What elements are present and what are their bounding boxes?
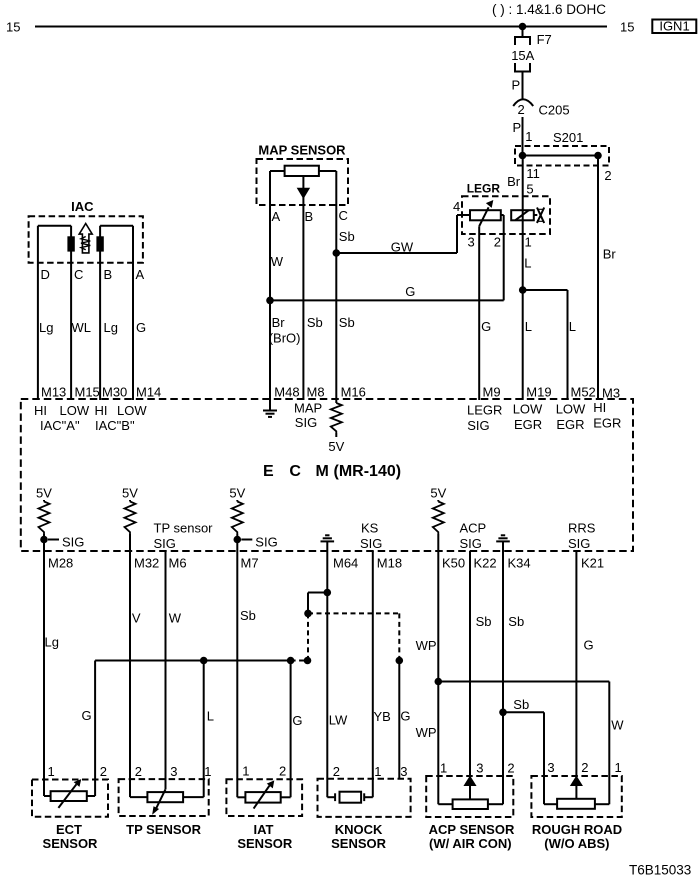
svg-text:SENSOR: SENSOR	[331, 836, 387, 851]
junction on ignition rail	[519, 23, 527, 31]
svg-text:G: G	[481, 319, 491, 334]
svg-text:Sb: Sb	[240, 608, 256, 623]
svg-text:2: 2	[279, 764, 286, 779]
svg-text:W: W	[169, 611, 182, 626]
svg-text:L: L	[569, 319, 576, 334]
ACP sensor	[426, 776, 513, 817]
svg-text:WP: WP	[416, 725, 437, 740]
svg-text:TP SENSOR: TP SENSOR	[126, 822, 202, 837]
ECT sensor	[32, 780, 108, 817]
svg-text:LOW: LOW	[117, 403, 147, 418]
svg-text:G: G	[400, 709, 410, 724]
svg-text:TP sensor: TP sensor	[154, 521, 214, 536]
svg-text:1: 1	[204, 764, 211, 779]
svg-text:B: B	[305, 209, 314, 224]
svg-text:L: L	[525, 319, 532, 334]
svg-text:SIG: SIG	[568, 536, 590, 551]
svg-text:M18: M18	[377, 556, 402, 571]
IAC coil B	[100, 225, 133, 227]
MAP pin A wire	[270, 170, 285, 172]
svg-text:(W/ AIR CON): (W/ AIR CON)	[429, 836, 512, 851]
svg-text:ROUGH ROAD: ROUGH ROAD	[532, 822, 622, 837]
svg-text:M6: M6	[169, 556, 187, 571]
rough road sensor	[531, 776, 621, 817]
svg-text:WL: WL	[72, 320, 92, 335]
MAP pin C wire	[319, 170, 336, 172]
svg-text:11: 11	[526, 166, 540, 181]
svg-text:LEGR: LEGR	[467, 403, 502, 418]
knock sensor	[318, 779, 411, 817]
wire color P below C205	[522, 117, 524, 156]
svg-text:2: 2	[333, 764, 340, 779]
svg-text:M48: M48	[274, 385, 299, 400]
svg-text:2: 2	[507, 761, 514, 776]
svg-text:3: 3	[468, 235, 475, 250]
svg-text:1: 1	[48, 764, 55, 779]
junction bus to TP pin 1	[200, 657, 208, 665]
svg-text:L: L	[524, 256, 531, 271]
connector C205 pin 2	[513, 99, 533, 106]
svg-text:1: 1	[525, 129, 532, 144]
svg-text:L: L	[207, 709, 214, 724]
wire shield to knock pin 3	[398, 661, 400, 779]
junction K34 to rough-road pin 3	[499, 709, 507, 717]
wire K22 to ACP pin 3	[469, 551, 471, 799]
svg-text:LEGR: LEGR	[467, 182, 501, 196]
wire K34 to ACP pin 2	[502, 551, 504, 804]
MAP pin B wire with arrow	[302, 176, 304, 400]
wire color G on K21	[575, 551, 577, 778]
svg-text:K34: K34	[508, 556, 531, 571]
svg-text:1: 1	[525, 235, 532, 250]
svg-text:G: G	[82, 708, 92, 723]
svg-text:Br: Br	[507, 174, 521, 189]
svg-text:3: 3	[476, 761, 483, 776]
wire M6 to TP pin 3	[165, 551, 167, 789]
svg-text:1: 1	[374, 764, 381, 779]
wire ignition feed rail	[35, 26, 607, 28]
junction bus to IAT pin 2	[287, 657, 295, 665]
EGR valve symbol	[534, 214, 538, 216]
svg-text:T6B15033: T6B15033	[629, 863, 691, 878]
svg-text:K21: K21	[581, 556, 604, 571]
svg-text:2: 2	[100, 764, 107, 779]
svg-text:2: 2	[604, 168, 611, 183]
svg-text:D: D	[41, 267, 50, 282]
wire bus to ECT pin 2	[94, 661, 96, 797]
svg-text:B: B	[104, 267, 113, 282]
svg-text:SENSOR: SENSOR	[237, 836, 293, 851]
svg-text:M64: M64	[333, 556, 358, 571]
svg-text:HI: HI	[95, 403, 108, 418]
svg-text:ECT: ECT	[56, 822, 82, 837]
svg-text:WP: WP	[416, 638, 437, 653]
svg-text:Sb: Sb	[513, 697, 529, 712]
svg-text:M30: M30	[102, 385, 127, 400]
svg-text:M28: M28	[48, 556, 73, 571]
svg-text:K22: K22	[474, 556, 497, 571]
IAC motor arrow	[79, 224, 92, 253]
svg-text:15: 15	[620, 20, 634, 35]
MAP sensor resistor	[285, 166, 319, 176]
LEGR pin 4 wire	[457, 214, 470, 216]
svg-text:M13: M13	[41, 385, 66, 400]
svg-text:SIG: SIG	[467, 418, 489, 433]
svg-text:(W/O ABS): (W/O ABS)	[544, 836, 609, 851]
svg-text:LOW: LOW	[556, 402, 586, 417]
wire M18 to knock pin 1	[372, 551, 374, 797]
svg-text:Sb: Sb	[508, 614, 524, 629]
shield ground on M64	[325, 534, 329, 536]
svg-text:Lg: Lg	[45, 635, 59, 650]
svg-text:HI: HI	[593, 400, 606, 415]
LEGR pin 3 wire to M9	[478, 226, 480, 400]
svg-text:ACP SENSOR: ACP SENSOR	[429, 822, 515, 837]
svg-text:M14: M14	[136, 385, 161, 400]
svg-text:KS: KS	[361, 521, 379, 536]
svg-text:Lg: Lg	[39, 320, 53, 335]
svg-text:3: 3	[170, 764, 177, 779]
svg-text:LOW: LOW	[513, 402, 543, 417]
svg-text:Br: Br	[603, 247, 617, 262]
shield ground on K34	[501, 534, 505, 536]
svg-text:V: V	[132, 611, 141, 626]
svg-text:IAC"B": IAC"B"	[95, 418, 135, 433]
svg-text:Sb: Sb	[339, 229, 355, 244]
svg-text:M9: M9	[483, 385, 501, 400]
svg-text:M15: M15	[75, 385, 100, 400]
LEGR pin 2 wire	[501, 214, 504, 216]
svg-text:S201: S201	[553, 130, 583, 145]
svg-text:LOW: LOW	[60, 403, 90, 418]
svg-text:IGN1: IGN1	[659, 19, 689, 34]
svg-text:1: 1	[615, 760, 622, 775]
wire S201 to M3	[597, 156, 599, 401]
svg-text:SIG: SIG	[360, 536, 382, 551]
svg-text:E: E	[263, 463, 274, 480]
svg-text:3: 3	[547, 760, 554, 775]
TP sensor	[119, 779, 209, 816]
svg-text:5: 5	[526, 182, 533, 197]
svg-text:M: M	[316, 463, 329, 480]
svg-text:2: 2	[135, 764, 142, 779]
svg-text:(BrO): (BrO)	[269, 330, 301, 345]
wire M28 to ECT pin 1	[43, 551, 45, 796]
svg-text:EGR: EGR	[556, 417, 584, 432]
fuse F7 15A	[522, 27, 524, 38]
svg-text:IAT: IAT	[254, 822, 274, 837]
svg-text:YB: YB	[374, 709, 391, 724]
svg-text:1: 1	[440, 761, 447, 776]
svg-text:IAC: IAC	[71, 199, 94, 214]
svg-text:HI: HI	[34, 403, 47, 418]
svg-text:SIG: SIG	[295, 415, 317, 430]
svg-text:LW: LW	[329, 713, 348, 728]
svg-text:A: A	[136, 267, 145, 282]
svg-text:C: C	[339, 208, 348, 223]
svg-text:RRS: RRS	[568, 521, 596, 536]
svg-text:3: 3	[400, 764, 407, 779]
svg-text:2: 2	[518, 102, 525, 117]
wire K50 to ACP pin 1	[437, 551, 439, 804]
svg-text:IAC"A": IAC"A"	[40, 418, 80, 433]
wire M32 to TP pin 2	[129, 551, 131, 797]
svg-text:Sb: Sb	[476, 614, 492, 629]
svg-text:KNOCK: KNOCK	[335, 822, 383, 837]
wire M64 to knock pin 2	[326, 551, 328, 797]
svg-text:C: C	[74, 267, 83, 282]
svg-text:G: G	[405, 284, 415, 299]
svg-text:Sb: Sb	[339, 315, 355, 330]
pull-up resistor to 5V on M16	[335, 399, 337, 403]
svg-text:M19: M19	[526, 385, 551, 400]
svg-text:M3: M3	[602, 386, 620, 401]
IAT sensor	[226, 779, 302, 816]
svg-text:W: W	[271, 254, 284, 269]
junction K50 to rough-road branch	[435, 678, 443, 686]
svg-text:5V: 5V	[430, 486, 446, 501]
svg-text:Sb: Sb	[307, 315, 323, 330]
svg-text:W: W	[611, 718, 624, 733]
svg-text:G: G	[136, 320, 146, 335]
svg-text:Br: Br	[272, 315, 286, 330]
svg-text:EGR: EGR	[593, 416, 621, 431]
svg-text:G: G	[292, 713, 302, 728]
svg-text:SENSOR: SENSOR	[43, 836, 99, 851]
wire M19 through EGR coil	[522, 156, 524, 401]
svg-text:MAP SENSOR: MAP SENSOR	[258, 143, 346, 158]
svg-text:P: P	[513, 120, 522, 135]
svg-text:SIG: SIG	[255, 535, 277, 550]
svg-text:M16: M16	[341, 385, 366, 400]
dashed shield wire	[308, 612, 399, 614]
junction M64 shield branch	[324, 589, 332, 597]
svg-text:SIG: SIG	[62, 535, 84, 550]
svg-text:15A: 15A	[511, 48, 534, 63]
svg-text:2: 2	[494, 235, 501, 250]
svg-text:Lg: Lg	[104, 320, 118, 335]
svg-text:15: 15	[6, 20, 20, 35]
svg-text:F7: F7	[537, 32, 552, 47]
svg-text:5V: 5V	[229, 486, 245, 501]
junction M19 to M52 branch	[519, 286, 527, 294]
svg-text:G: G	[584, 638, 594, 653]
svg-text:5V: 5V	[36, 486, 52, 501]
svg-text:MAP: MAP	[294, 401, 322, 416]
svg-text:2: 2	[581, 760, 588, 775]
IAC coil A	[38, 225, 71, 227]
svg-text:SIG: SIG	[154, 536, 176, 551]
svg-text:K50: K50	[442, 556, 465, 571]
svg-text:EGR: EGR	[514, 417, 542, 432]
svg-text:4: 4	[453, 199, 460, 214]
svg-text:C: C	[289, 463, 301, 480]
svg-text:M8: M8	[307, 385, 325, 400]
svg-text:SIG: SIG	[460, 536, 482, 551]
svg-text:ACP: ACP	[460, 521, 487, 536]
ground inside ECM on M48	[269, 399, 271, 411]
sensor ground bus	[95, 660, 291, 662]
svg-text:C205: C205	[539, 103, 570, 118]
svg-text:5V: 5V	[328, 439, 344, 454]
svg-text:A: A	[272, 209, 281, 224]
wire M7 to IAT pin 1	[236, 551, 238, 797]
LEGR potentiometer	[470, 210, 501, 220]
IGN1 box	[652, 20, 696, 34]
svg-text:P: P	[512, 78, 521, 93]
svg-text:(MR-140): (MR-140)	[334, 463, 402, 480]
svg-text:M7: M7	[241, 556, 259, 571]
svg-text:M52: M52	[571, 385, 596, 400]
svg-text:5V: 5V	[122, 486, 138, 501]
EGR solenoid coil	[511, 210, 534, 220]
svg-text:1: 1	[242, 764, 249, 779]
svg-text:( ) : 1.4&1.6 DOHC: ( ) : 1.4&1.6 DOHC	[492, 2, 606, 17]
ECM ECM box	[21, 399, 633, 551]
svg-text:M32: M32	[134, 556, 159, 571]
